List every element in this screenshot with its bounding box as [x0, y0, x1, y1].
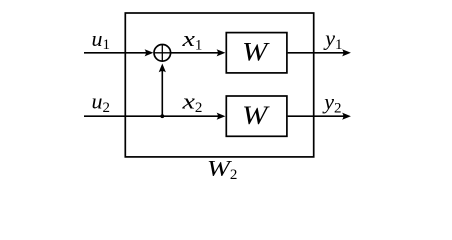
svg-text:u1: u1 — [92, 26, 111, 53]
block W (top) — [226, 33, 287, 73]
wire y2 output — [288, 113, 351, 120]
svg-text:W: W — [242, 101, 270, 130]
outer system boundary box W2 — [125, 13, 313, 157]
svg-text:x2: x2 — [181, 89, 202, 116]
wire y1 output — [288, 49, 351, 56]
wire x1 (summing junction to top block W) — [171, 49, 225, 56]
wire u1 input — [84, 49, 153, 56]
wire branch from u2 node up to summing junction — [159, 64, 166, 117]
block W (bottom) — [226, 96, 287, 136]
wire u2 input (to bottom block W) — [84, 113, 225, 120]
svg-text:W2: W2 — [207, 155, 238, 182]
svg-text:y2: y2 — [322, 89, 341, 116]
summing junction — [154, 45, 171, 62]
junction node on u2 wire — [160, 114, 164, 118]
svg-text:y1: y1 — [323, 26, 342, 53]
svg-text:W: W — [242, 38, 270, 67]
svg-text:u2: u2 — [92, 89, 111, 116]
svg-text:x1: x1 — [181, 26, 202, 53]
